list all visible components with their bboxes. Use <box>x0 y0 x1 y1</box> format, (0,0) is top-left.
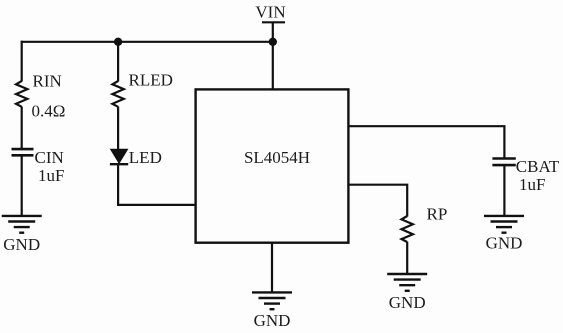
svg-text:VIN: VIN <box>255 3 285 22</box>
svg-text:GND: GND <box>254 311 291 330</box>
resistor RLED <box>112 70 172 107</box>
wire IC right upper pin to CBAT <box>349 126 505 158</box>
wire VIN vertical to IC top pin <box>272 22 274 90</box>
wire RP to ground <box>406 242 408 275</box>
svg-text:LED: LED <box>129 148 162 167</box>
wire left branch down to RIN <box>21 41 23 82</box>
svg-text:GND: GND <box>486 234 523 253</box>
svg-text:0.4Ω: 0.4Ω <box>32 101 66 120</box>
ground (IC bottom) <box>252 292 292 330</box>
svg-text:RP: RP <box>427 205 448 224</box>
resistor RIN <box>16 71 62 107</box>
wire RLED branch down from rail <box>117 42 119 82</box>
ground (RP) <box>387 274 427 312</box>
wire top horizontal rail <box>21 41 274 43</box>
capacitor CIN <box>12 148 64 167</box>
svg-text:SL4054H: SL4054H <box>244 148 310 167</box>
junction at RLED branch <box>114 38 122 46</box>
junction at VIN rail <box>269 38 277 46</box>
wire RLED to LED <box>117 107 119 151</box>
ground (CBAT) <box>484 216 524 253</box>
svg-text:RLED: RLED <box>129 70 173 89</box>
wire IC right lower pin to RP <box>349 185 408 217</box>
IC U1 SL4054H <box>196 89 349 242</box>
wire RIN to CIN <box>21 107 23 149</box>
wire CBAT to ground <box>503 166 505 217</box>
wire CIN to ground <box>21 156 23 217</box>
wire IC bottom pin to ground <box>271 243 273 293</box>
wire LED to IC left pin <box>118 164 196 205</box>
svg-text:RIN: RIN <box>33 71 62 90</box>
svg-text:GND: GND <box>3 235 40 254</box>
svg-text:GND: GND <box>389 293 426 312</box>
resistor RP <box>402 205 448 243</box>
svg-text:1uF: 1uF <box>38 166 64 185</box>
node VIN terminal <box>255 3 285 23</box>
LED diode <box>110 148 162 167</box>
svg-text:CBAT: CBAT <box>516 157 560 176</box>
ground (left, CIN) <box>2 216 42 254</box>
svg-text:1uF: 1uF <box>519 175 545 194</box>
svg-text:CIN: CIN <box>35 148 64 167</box>
capacitor CBAT <box>492 157 559 176</box>
